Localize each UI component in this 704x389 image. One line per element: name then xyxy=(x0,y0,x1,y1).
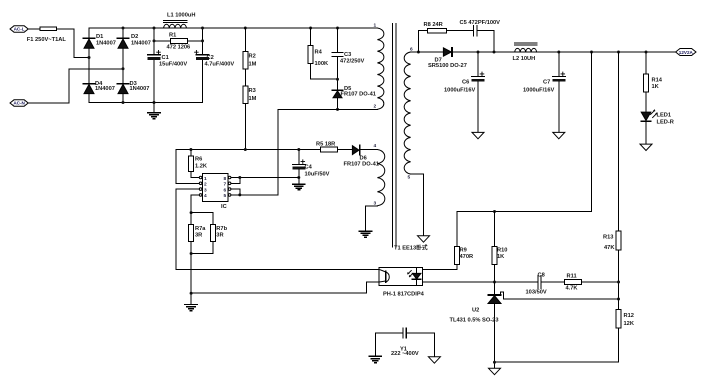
svg-text:1N4007: 1N4007 xyxy=(131,41,151,47)
transformer T1 primary winding xyxy=(377,28,383,109)
wire R7 bottom to ground column xyxy=(190,254,192,305)
wire pin2 to VCC column xyxy=(176,150,200,184)
resistor R13 xyxy=(616,231,621,250)
node emitter line junction xyxy=(190,292,193,295)
wire opto cathode to TL431 line xyxy=(422,281,538,283)
capacitor C2 xyxy=(195,50,209,60)
node C1 bottom junction xyxy=(153,101,156,104)
svg-text:1: 1 xyxy=(204,176,207,182)
ground aux winding xyxy=(359,231,371,237)
svg-text:1K: 1K xyxy=(652,84,660,90)
svg-text:R6: R6 xyxy=(195,156,202,162)
capacitor C6 xyxy=(472,52,485,132)
svg-text:12V2A: 12V2A xyxy=(679,50,694,55)
inductor L1 xyxy=(163,21,186,28)
svg-text:L2 10UH: L2 10UH xyxy=(513,56,536,62)
port AC-N xyxy=(10,100,28,106)
wire R12 bottom to anode line xyxy=(495,328,619,362)
node R14 column top xyxy=(645,51,648,54)
node pins 7-8 xyxy=(238,176,241,179)
resistor R7b xyxy=(211,225,216,242)
capacitor C1 xyxy=(148,50,161,60)
port 12V2A output xyxy=(676,49,696,56)
wire R8 to C5 xyxy=(447,30,474,32)
svg-text:C5 472PF/100V: C5 472PF/100V xyxy=(460,20,501,26)
op-amp IC (PWM controller) xyxy=(199,174,231,202)
svg-text:R13: R13 xyxy=(603,234,613,240)
svg-text:1N4007: 1N4007 xyxy=(95,86,115,92)
svg-text:C7: C7 xyxy=(543,79,550,85)
transformer T1 secondary winding xyxy=(404,52,410,174)
wire snubber left leg xyxy=(418,31,427,52)
wire snubber right leg xyxy=(477,31,494,52)
node R10 top on sense line xyxy=(493,210,496,213)
wire R14 to LED1 xyxy=(645,92,647,112)
wire C3 top stub xyxy=(337,28,339,52)
ground Y1 primary xyxy=(369,356,381,362)
node R2 top on rail xyxy=(244,27,247,30)
node C3 top on rail xyxy=(336,27,339,30)
svg-text:D2: D2 xyxy=(131,34,138,40)
node R4 top on rail xyxy=(309,27,312,30)
LED LED1 xyxy=(641,109,657,121)
svg-text:8: 8 xyxy=(224,176,227,182)
svg-text:C3: C3 xyxy=(344,52,351,58)
wire secondary top to node xyxy=(411,51,419,53)
svg-text:7: 7 xyxy=(224,182,227,188)
wire AC-N to bridge midpoint R xyxy=(28,69,123,103)
svg-text:4.7uF/400V: 4.7uF/400V xyxy=(205,62,235,68)
node C7 top xyxy=(557,51,560,54)
capacitor Y1 xyxy=(375,328,434,357)
svg-text:T1 EE13卧式: T1 EE13卧式 xyxy=(394,244,428,252)
wire pin8 to C4 gnd xyxy=(231,177,299,179)
resistor R5 xyxy=(321,147,338,152)
wire R2-R3 xyxy=(244,69,246,86)
svg-text:R1: R1 xyxy=(169,33,176,39)
svg-text:AC-N: AC-N xyxy=(13,101,25,106)
wire R4 top stub xyxy=(310,28,312,45)
node bridge AC-L junction xyxy=(88,56,91,59)
node D5 / transformer pin2 xyxy=(336,108,339,111)
transformer T1 core xyxy=(392,24,396,248)
wire R7b top branch xyxy=(191,212,213,214)
capacitor C3 xyxy=(332,52,343,56)
wire pin2 line to drain column xyxy=(278,108,377,110)
resistor R10 xyxy=(492,212,497,265)
svg-text:R14: R14 xyxy=(652,77,663,83)
svg-text:470R: 470R xyxy=(460,254,474,260)
diode D4 xyxy=(84,84,95,94)
svg-text:C1: C1 xyxy=(162,55,169,61)
wire bridge left leg xyxy=(88,28,90,103)
diode D5 xyxy=(333,90,343,98)
wire R13 column xyxy=(618,52,620,231)
node C4 top on VCC xyxy=(297,148,300,151)
wire R11 to ref column xyxy=(581,281,618,283)
svg-text:222 ~400V: 222 ~400V xyxy=(391,351,419,357)
svg-text:4: 4 xyxy=(204,193,207,199)
wire C1 column xyxy=(153,28,155,55)
svg-text:3R: 3R xyxy=(195,233,202,239)
svg-text:C2: C2 xyxy=(207,55,214,61)
wire D5 anode stub xyxy=(337,98,339,110)
node L1 left / node L1 right on rail xyxy=(153,27,156,30)
diode D3 xyxy=(118,84,129,94)
wire pin4 to sense resistors xyxy=(191,195,199,213)
resistor R7a xyxy=(189,213,194,242)
ground C6 xyxy=(472,132,484,138)
node pins 5-6 xyxy=(238,193,241,196)
svg-text:AC-L: AC-L xyxy=(14,27,25,32)
resistor R9 xyxy=(455,212,460,265)
diode D1 xyxy=(84,38,95,48)
node bridge AC-N junction xyxy=(122,67,125,70)
wire pin5 to drain column xyxy=(231,194,278,196)
node C4 / IC gnd pins xyxy=(297,176,300,179)
svg-text:1.2K: 1.2K xyxy=(195,163,208,169)
capacitor C8 xyxy=(538,276,541,289)
svg-text:PH-1 817CDIP4: PH-1 817CDIP4 xyxy=(383,291,425,297)
wire R14 top stub xyxy=(645,52,647,74)
wire ref line xyxy=(504,298,619,300)
wire R2 top stub xyxy=(244,28,246,52)
wire C3 bottom to clamp node xyxy=(337,57,339,91)
resistor R4 xyxy=(308,45,313,63)
svg-text:1M: 1M xyxy=(249,96,257,102)
svg-text:3: 3 xyxy=(204,187,207,193)
svg-text:R7b: R7b xyxy=(216,226,227,232)
svg-text:R2: R2 xyxy=(249,53,256,59)
svg-text:C4: C4 xyxy=(305,165,313,171)
svg-text:R11: R11 xyxy=(567,274,577,280)
svg-text:5: 5 xyxy=(408,175,411,181)
resistor R6 xyxy=(188,150,193,172)
inductor L2 xyxy=(514,43,537,52)
svg-text:472 1206: 472 1206 xyxy=(167,45,191,51)
wire secondary rail xyxy=(418,51,443,53)
resistor R14 xyxy=(644,74,649,92)
svg-text:C8: C8 xyxy=(538,272,545,278)
wire bridge right leg xyxy=(122,28,124,103)
node sense column top xyxy=(590,51,593,54)
wire R13 bottom column xyxy=(618,250,620,310)
wire pin6 down to pin5 xyxy=(231,189,240,195)
svg-text:1N4007: 1N4007 xyxy=(130,86,150,92)
wire R9 bottom to opto anode xyxy=(422,264,457,269)
capacitor C5 xyxy=(474,26,477,36)
node TL431 anode xyxy=(493,361,496,364)
svg-text:LED1: LED1 xyxy=(657,112,672,118)
wire opto emitter return xyxy=(191,282,379,293)
node secondary pin6 xyxy=(417,51,420,54)
fuse F1 xyxy=(40,27,57,31)
svg-text:2: 2 xyxy=(374,104,377,110)
wire DC+ top rail xyxy=(89,27,377,29)
node R7 top xyxy=(190,211,193,214)
svg-text:4.7K: 4.7K xyxy=(566,285,579,291)
node D2 top junction xyxy=(122,27,125,30)
diode D6 xyxy=(352,145,359,155)
svg-text:1N4007: 1N4007 xyxy=(96,41,116,47)
diode D7 xyxy=(443,48,452,56)
svg-text:R4: R4 xyxy=(315,50,323,56)
node ref / R12 xyxy=(617,298,620,301)
node R11 / R13 xyxy=(617,281,620,284)
wire pin7 up to pin8 xyxy=(231,178,240,184)
ground LED1 xyxy=(640,144,652,150)
wire R3 bottom to VCC line xyxy=(244,104,246,150)
wire secondary bottom to ground xyxy=(411,174,424,236)
svg-text:R8 24R: R8 24R xyxy=(424,22,443,28)
svg-text:L1 1000uH: L1 1000uH xyxy=(167,12,195,18)
svg-text:3R: 3R xyxy=(216,233,223,239)
node C6 top xyxy=(477,51,480,54)
node D3 bottom junction xyxy=(122,101,125,104)
capacitor C4 xyxy=(292,150,305,185)
svg-text:15uF/400V: 15uF/400V xyxy=(159,62,187,68)
svg-text:LED-R: LED-R xyxy=(657,120,674,126)
node snubber on rail xyxy=(493,51,496,54)
ground Y1 secondary xyxy=(428,357,440,363)
svg-text:1M: 1M xyxy=(249,62,257,68)
node R1 left / right xyxy=(153,39,156,42)
wire R7 bottoms join xyxy=(190,241,192,253)
svg-text:100K: 100K xyxy=(315,61,329,67)
svg-text:10uF/50V: 10uF/50V xyxy=(305,171,330,177)
wire C2 column xyxy=(202,28,204,55)
svg-text:47K: 47K xyxy=(604,245,615,251)
wire sense column xyxy=(457,52,592,212)
wire C8 to R11 xyxy=(541,281,564,283)
ground primary bus xyxy=(148,103,160,119)
ground C7 xyxy=(553,132,565,138)
svg-text:IC: IC xyxy=(221,204,227,210)
svg-text:FR107 DO-41: FR107 DO-41 xyxy=(341,92,376,98)
resistor R8 xyxy=(428,28,447,33)
resistor R1 xyxy=(171,39,188,44)
svg-text:R10: R10 xyxy=(497,248,507,254)
svg-text:1000uF/16V: 1000uF/16V xyxy=(523,87,555,93)
transistor U2 TL431 xyxy=(488,282,504,368)
transformer T1 aux winding xyxy=(377,150,384,206)
svg-text:R3: R3 xyxy=(249,88,256,94)
svg-text:FR107 DO-41: FR107 DO-41 xyxy=(344,161,379,167)
wire fuse to bridge midpoint L xyxy=(57,29,90,58)
svg-text:1000uF/16V: 1000uF/16V xyxy=(444,87,476,93)
svg-text:C6: C6 xyxy=(462,79,469,85)
node clamp R4/C3 xyxy=(336,78,339,81)
wire R4 bottom to clamp node xyxy=(311,63,338,79)
svg-text:1K: 1K xyxy=(497,254,505,260)
ground TL431 xyxy=(489,368,501,374)
wire AC-L to fuse xyxy=(28,28,39,30)
node R6 top xyxy=(189,148,192,151)
svg-text:D1: D1 xyxy=(96,34,103,40)
node TL431 cathode xyxy=(493,281,496,284)
opto-coupler U1 PH-1817C xyxy=(379,267,422,285)
svg-text:6: 6 xyxy=(224,187,227,193)
svg-text:F1 250V~T1AL: F1 250V~T1AL xyxy=(27,37,67,43)
node R7 bottom xyxy=(190,252,193,255)
ground C4 xyxy=(293,184,305,190)
wire R6 bottom to pin1 xyxy=(191,171,199,177)
svg-text:472/250V: 472/250V xyxy=(340,59,365,65)
svg-text:R12: R12 xyxy=(624,313,634,319)
wire bridge bottom rail xyxy=(89,102,203,104)
svg-text:4: 4 xyxy=(374,143,377,149)
svg-text:R5 18R: R5 18R xyxy=(316,141,335,147)
capacitor C7 xyxy=(552,52,565,132)
wire aux bottom to ground xyxy=(366,206,378,231)
wire LED1 to ground xyxy=(645,121,647,144)
node R13 column top xyxy=(617,51,620,54)
diode D2 xyxy=(118,38,129,48)
resistor R3 xyxy=(243,86,248,103)
svg-text:TL431 0.5% SO-23: TL431 0.5% SO-23 xyxy=(450,318,499,324)
wire VCC line xyxy=(176,149,321,151)
svg-text:103/50V: 103/50V xyxy=(526,290,547,296)
wire R1 branch xyxy=(154,40,171,42)
svg-text:12K: 12K xyxy=(624,321,635,327)
resistor R2 xyxy=(243,52,248,69)
resistor R12 xyxy=(616,310,621,328)
ground secondary pin5 xyxy=(418,236,430,242)
svg-text:R7a: R7a xyxy=(195,226,206,232)
wire R10 bottom to cathode line xyxy=(494,264,496,282)
resistor R11 xyxy=(564,280,581,285)
wire drain column xyxy=(277,109,279,194)
port AC-L xyxy=(10,26,28,32)
ground IC source xyxy=(185,305,197,311)
svg-text:R9: R9 xyxy=(460,248,467,254)
svg-text:SR5100 DO-27: SR5100 DO-27 xyxy=(428,63,467,69)
svg-text:5: 5 xyxy=(224,193,227,199)
wire pin3 to opto column xyxy=(176,189,379,270)
svg-text:2: 2 xyxy=(204,182,207,188)
svg-text:1: 1 xyxy=(374,23,377,29)
svg-text:U2: U2 xyxy=(472,308,479,314)
node R3 bottom on VCC xyxy=(244,148,247,151)
